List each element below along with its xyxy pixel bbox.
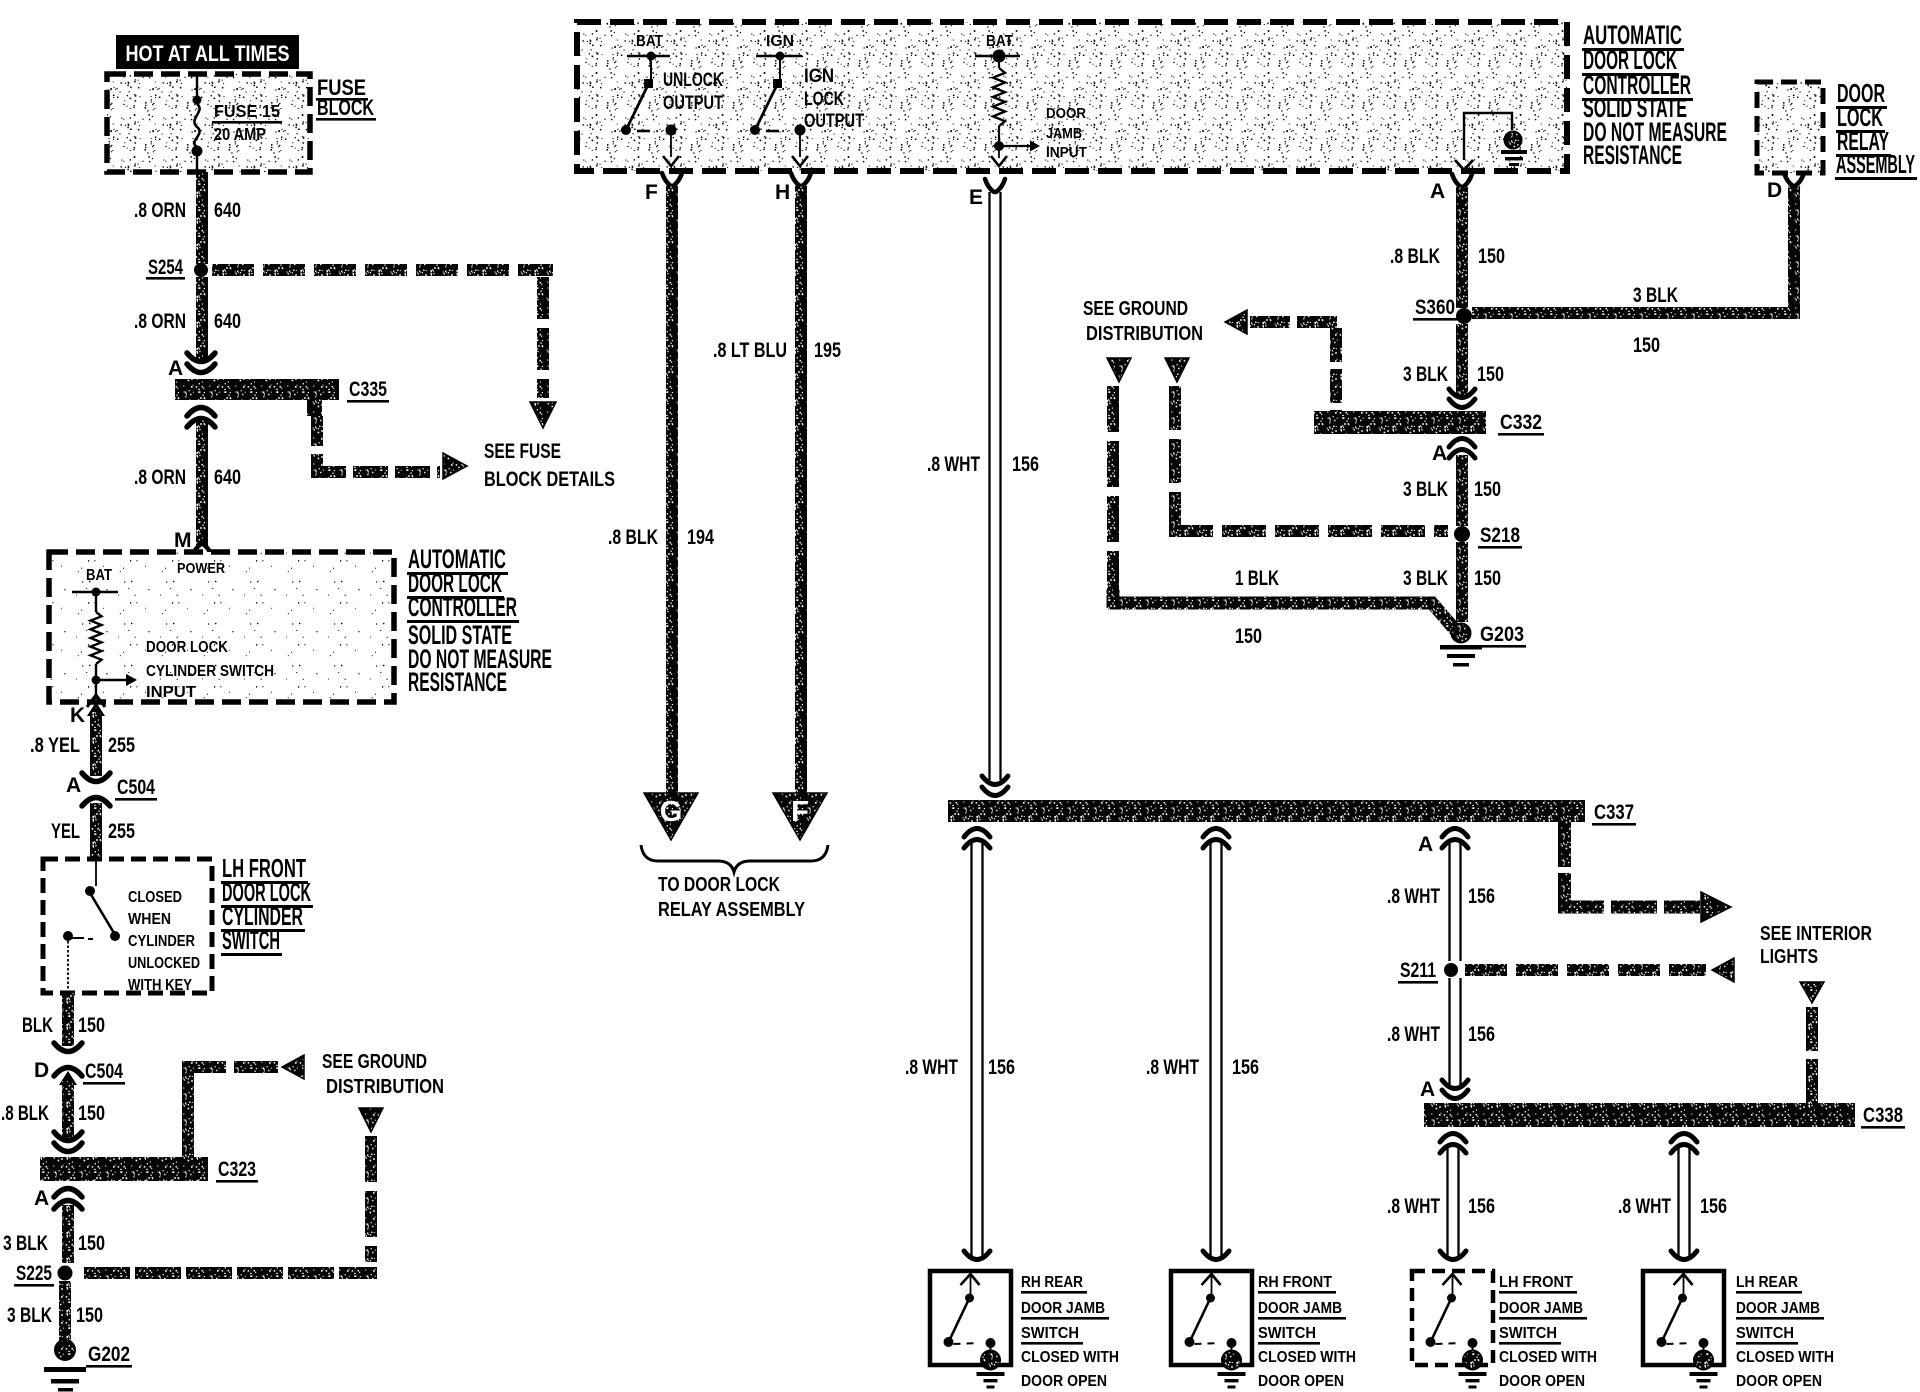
arrow F (to door lock relay assembly) [773,793,827,840]
svg-text:RELAY ASSEMBLY: RELAY ASSEMBLY [658,899,806,921]
svg-text:CLOSED WITH: CLOSED WITH [1736,1349,1834,1366]
svg-text:150: 150 [78,1102,105,1125]
svg-text:150: 150 [1478,245,1505,268]
splice S218 [1454,526,1470,542]
svg-text:UNLOCKED: UNLOCKED [128,955,200,972]
dashed wire from see-ground-distribution to C332 [1225,310,1247,334]
svg-text:150: 150 [1474,567,1501,590]
wire C332 to S218 (3 BLK 150) [1456,455,1468,526]
svg-text:CONTROLLER: CONTROLLER [408,592,517,622]
svg-text:.8 WHT: .8 WHT [905,1056,958,1079]
svg-text:640: 640 [214,466,241,489]
svg-text:.8 WHT: .8 WHT [1387,1023,1440,1046]
wire F to arrow G (.8 BLK 194) [666,186,678,793]
svg-text:.8 BLK: .8 BLK [1390,245,1440,268]
dashed wire C323 to see-ground-distribution arrow [182,1061,194,1157]
svg-text:3 BLK: 3 BLK [1633,284,1678,307]
svg-text:.8 LT BLU: .8 LT BLU [713,339,787,362]
svg-text:156: 156 [1468,1195,1495,1218]
svg-text:K: K [70,704,85,727]
svg-text:3 BLK: 3 BLK [7,1304,52,1327]
svg-text:S360: S360 [1415,296,1455,319]
svg-text:S218: S218 [1480,524,1520,547]
wire S360 to C332 (3 BLK 150) [1456,324,1468,396]
svg-text:BAT: BAT [636,33,663,50]
wire C335 to controller pin M (.8 ORN 640) [196,420,208,546]
svg-text:BLOCK DETAILS: BLOCK DETAILS [484,468,615,491]
svg-text:C504: C504 [117,776,155,799]
wire C337-A to S211 (.8 WHT 156) [1448,843,1450,961]
node: door lock cylinder switch input [92,676,101,685]
svg-text:640: 640 [214,310,241,333]
svg-text:DOOR OPEN: DOOR OPEN [1736,1373,1822,1390]
dashed wire down from arrow to S225 run [365,1136,377,1182]
svg-text:WITH KEY: WITH KEY [128,977,193,994]
dashed branch wire C335 to see-fuse-block-details arrow [311,416,323,446]
svg-text:C332: C332 [1500,411,1542,434]
dashed wire left from S218 [1169,525,1213,537]
svg-text:156: 156 [1468,1023,1495,1046]
svg-text:LOCK: LOCK [804,89,844,110]
svg-text:RH FRONT: RH FRONT [1258,1274,1332,1291]
LH front door lock cylinder switch dashed box [43,859,212,993]
svg-text:G203: G203 [1480,623,1524,646]
svg-text:FUSE 15: FUSE 15 [214,101,280,121]
svg-text:YEL: YEL [51,820,80,843]
svg-text:S211: S211 [1400,959,1436,982]
connector C323 bar [54,1132,82,1141]
svg-text:HOT AT ALL TIMES: HOT AT ALL TIMES [126,41,290,66]
svg-text:SWITCH: SWITCH [1499,1325,1557,1342]
automatic door lock controller dashed box (top) [577,22,1567,171]
svg-text:OUTPUT: OUTPUT [663,93,723,114]
fuse F15 symbol [196,74,198,97]
wire C504 to cylinder switch (YEL 255) [90,803,102,859]
dashed wire S254 to fuse-block-details (right then down) [212,264,254,276]
svg-text:156: 156 [1468,885,1495,908]
svg-text:156: 156 [1232,1056,1259,1079]
wire down to RH front jamb switch (.8 WHT 156) [1203,829,1229,838]
svg-text:.8 BLK: .8 BLK [1,1102,49,1125]
svg-text:DISTRIBUTION: DISTRIBUTION [326,1075,444,1098]
svg-text:RESISTANCE: RESISTANCE [1583,140,1682,170]
svg-text:.8 ORN: .8 ORN [134,199,186,222]
svg-text:.8 YEL: .8 YEL [30,734,80,757]
svg-text:3 BLK: 3 BLK [1403,478,1448,501]
svg-text:CLOSED: CLOSED [128,889,182,906]
wire S211 to C338 (.8 WHT 156) [1448,978,1450,1087]
dashed wire from arrow1 down then 1 BLK 150 to G203 [1107,386,1119,432]
wire fuse to S254 (.8 ORN 640) [196,172,208,264]
svg-text:IGN: IGN [766,33,794,50]
svg-text:INPUT: INPUT [146,684,196,701]
svg-text:BLOCK: BLOCK [317,95,374,120]
svg-text:BLK: BLK [22,1014,53,1037]
svg-text:.8 WHT: .8 WHT [1618,1195,1671,1218]
svg-text:DOOR LOCK: DOOR LOCK [146,639,228,656]
svg-text:3 BLK: 3 BLK [3,1232,48,1255]
svg-text:.8 WHT: .8 WHT [1387,885,1440,908]
fuse block (dashed box) [107,74,310,172]
connector C338 bar [1424,1103,1855,1127]
svg-text:156: 156 [1012,453,1039,476]
svg-text:DOOR OPEN: DOOR OPEN [1499,1373,1585,1390]
RH rear door jamb switch [964,1251,990,1260]
dashed wire from arrow2 down to S218 run [1169,386,1181,430]
arrow down (see fuse block details feed) [530,402,556,428]
svg-text:.8 WHT: .8 WHT [927,453,980,476]
cylinder switch contacts [95,859,97,886]
svg-text:1 BLK: 1 BLK [1235,567,1279,590]
svg-text:.8 WHT: .8 WHT [1387,1195,1440,1218]
svg-text:F: F [645,181,658,204]
svg-text:C338: C338 [1863,1104,1903,1127]
pin K exit arrow [95,684,97,699]
wire D down to S360 run (3 BLK 150) [1788,186,1800,319]
svg-text:150: 150 [1474,478,1501,501]
svg-text:A: A [1430,180,1445,203]
svg-text:RH REAR: RH REAR [1021,1274,1083,1291]
svg-text:150: 150 [1633,334,1660,357]
svg-text:156: 156 [1700,1195,1727,1218]
arrow right (see fuse block details) [443,453,467,479]
svg-text:150: 150 [76,1304,103,1327]
svg-text:ASSEMBLY: ASSEMBLY [1836,149,1915,179]
RH front door jamb switch [1203,1251,1229,1260]
svg-text:A: A [1432,442,1447,465]
svg-text:150: 150 [78,1014,105,1037]
svg-text:CYLINDER: CYLINDER [128,933,195,950]
svg-text:IGN: IGN [804,66,834,87]
svg-text:DISTRIBUTION: DISTRIBUTION [1086,322,1203,345]
svg-text:C337: C337 [1594,801,1634,824]
label HOT AT ALL TIMES [116,35,299,69]
svg-text:D: D [34,1059,49,1082]
svg-text:SEE INTERIOR: SEE INTERIOR [1760,922,1872,945]
svg-text:SEE FUSE: SEE FUSE [484,440,561,463]
svg-text:S225: S225 [16,1262,52,1285]
connector C337 bar [948,800,1585,822]
hollow wire E to C337 (.8 WHT 156) [988,192,990,780]
svg-text:BAT: BAT [986,33,1013,50]
wire cylinder switch to C504-D (BLK 150) [62,993,74,1046]
wire C504 to C323 (.8 BLK 150) [59,1071,77,1085]
wire H to arrow F (.8 LT BLU 195) [795,186,807,793]
door lock relay assembly dashed box [1757,82,1823,173]
connector C335 bar [175,379,339,400]
svg-text:UNLOCK: UNLOCK [663,70,723,91]
svg-text:LIGHTS: LIGHTS [1760,945,1818,968]
ground G202 [55,1340,75,1360]
svg-text:A: A [1420,1078,1435,1101]
svg-text:194: 194 [687,526,714,549]
svg-text:195: 195 [814,339,841,362]
brace TO DOOR LOCK RELAY ASSEMBLY [641,845,828,872]
svg-text:DOOR: DOOR [1046,106,1086,122]
wire down to LH rear jamb switch (.8 WHT 156) [1671,1134,1697,1143]
svg-text:G202: G202 [88,1343,130,1366]
svg-text:DOOR OPEN: DOOR OPEN [1021,1373,1107,1390]
svg-text:.8 WHT: .8 WHT [1146,1056,1199,1079]
controller internal ground (pin A) [1464,113,1512,160]
svg-text:150: 150 [1477,363,1504,386]
arrow down to ground distribution #1 [1107,358,1131,382]
svg-text:255: 255 [108,734,135,757]
wire down to RH rear jamb switch (.8 WHT 156) [964,829,990,838]
svg-text:G: G [660,796,683,828]
dashed wire S211 to see-interior-lights (incoming) [1465,964,1507,976]
svg-text:CLOSED WITH: CLOSED WITH [1499,1349,1597,1366]
svg-text:RESISTANCE: RESISTANCE [408,667,507,697]
svg-text:C504: C504 [85,1060,123,1083]
svg-text:.8 ORN: .8 ORN [134,310,186,333]
wire K to C504 (.8 YEL 255) [87,702,105,716]
svg-text:POWER: POWER [177,560,225,577]
wire S218 to G203 (3 BLK 150) [1456,542,1468,622]
svg-text:CYLINDER SWITCH: CYLINDER SWITCH [146,663,274,680]
svg-text:C335: C335 [349,378,387,401]
ign lock output arrow to pin H [799,135,801,157]
wire S225 to G202 (3 BLK 150) [59,1281,71,1342]
svg-text:TO DOOR LOCK: TO DOOR LOCK [658,874,780,896]
svg-text:SEE GROUND: SEE GROUND [1083,297,1188,320]
svg-text:LH REAR: LH REAR [1736,1274,1798,1291]
svg-text:CLOSED WITH: CLOSED WITH [1021,1349,1119,1366]
arrow down to ground distribution #2 [1165,358,1189,382]
ground G203 [1452,624,1471,643]
svg-text:A: A [66,774,81,797]
svg-text:E: E [969,186,983,209]
connector C332 bar [1314,411,1486,434]
svg-text:DOOR OPEN: DOOR OPEN [1258,1373,1344,1390]
svg-text:BAT: BAT [86,567,112,584]
svg-text:DOOR JAMB: DOOR JAMB [1736,1300,1820,1317]
svg-text:3 BLK: 3 BLK [1403,363,1448,386]
BAT feed line with node [72,591,118,593]
svg-text:LH FRONT: LH FRONT [1499,1274,1573,1291]
arrow G (to door lock relay assembly) [644,793,698,840]
svg-text:A: A [168,357,183,380]
svg-text:INPUT: INPUT [1046,145,1087,161]
svg-text:156: 156 [988,1056,1015,1079]
automatic door lock controller (power section) dashed box [49,552,394,702]
dashed wire from interior lights down to C338 [1800,982,1824,1003]
outgoing wire C337 to see-interior-lights arrow [1558,822,1571,867]
svg-text:A: A [1418,833,1433,856]
door jamb input node arrow [999,145,1030,147]
LH rear door jamb switch [1671,1251,1697,1260]
svg-text:S254: S254 [148,256,183,279]
svg-text:JAMB: JAMB [1046,126,1082,142]
svg-text:150: 150 [78,1232,105,1255]
resistor (controller internal) [95,596,97,612]
svg-text:20 AMP: 20 AMP [214,124,266,144]
svg-text:D: D [1767,179,1782,202]
svg-text:C323: C323 [218,1158,256,1181]
svg-text:3 BLK: 3 BLK [1403,567,1448,590]
svg-text:WHEN: WHEN [128,911,171,928]
svg-text:640: 640 [214,199,241,222]
svg-text:SWITCH: SWITCH [1736,1325,1794,1342]
svg-text:OUTPUT: OUTPUT [804,111,864,132]
svg-text:DOOR JAMB: DOOR JAMB [1499,1300,1583,1317]
arrow left (see ground distribution from C323) [282,1055,304,1079]
svg-text:A: A [34,1187,49,1210]
svg-text:.8 BLK: .8 BLK [608,526,658,549]
svg-text:CLOSED WITH: CLOSED WITH [1258,1349,1356,1366]
svg-text:SWITCH: SWITCH [1021,1325,1079,1342]
wire S254 to C335 (.8 ORN 640) [196,277,208,360]
wire S360 to D horizontal [1472,307,1800,319]
svg-text:SWITCH: SWITCH [222,925,280,955]
svg-text:M: M [174,529,192,552]
svg-text:150: 150 [1235,625,1262,648]
unlock output arrow to pin F [670,135,672,157]
svg-text:SEE GROUND: SEE GROUND [322,1050,427,1073]
wire down to LH front jamb switch (.8 WHT 156) [1440,1134,1466,1143]
svg-text:SWITCH: SWITCH [1258,1325,1316,1342]
wire C323 to S225 (3 BLK 150) [62,1205,74,1263]
svg-text:DOOR JAMB: DOOR JAMB [1021,1300,1105,1317]
svg-text:H: H [775,181,790,204]
svg-text:255: 255 [108,820,135,843]
LH front door jamb switch [1440,1251,1466,1260]
arrow down to ground distribution (left) [359,1108,383,1132]
svg-text:F: F [791,796,809,828]
svg-text:.8 ORN: .8 ORN [134,466,186,489]
svg-text:DOOR JAMB: DOOR JAMB [1258,1300,1342,1317]
